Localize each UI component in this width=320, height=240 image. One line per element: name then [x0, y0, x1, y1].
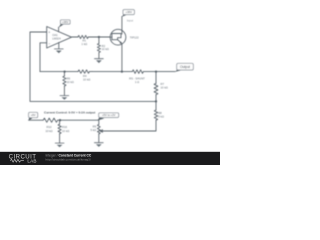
svg-text:R9: R9	[93, 125, 97, 129]
svg-text:http://circuitlab.com/circuit/: http://circuitlab.com/circuit/kmaq3/	[46, 157, 91, 161]
svg-text:10 kΩ: 10 kΩ	[102, 47, 109, 51]
svg-text:R10: R10	[46, 125, 52, 129]
svg-text:1 Ω: 1 Ω	[135, 80, 139, 84]
svg-text:1 kΩ: 1 kΩ	[81, 42, 87, 46]
svg-text:10 kΩ: 10 kΩ	[83, 77, 90, 81]
svg-text:+5V to +2V: +5V to +2V	[102, 113, 116, 117]
svg-text:10 kΩ: 10 kΩ	[62, 129, 69, 133]
svg-text:−: −	[48, 42, 50, 46]
svg-text:10 kΩ: 10 kΩ	[45, 129, 52, 133]
svg-text:Input: Input	[127, 18, 133, 22]
svg-text:+36V: +36V	[62, 20, 69, 24]
svg-text:R1: R1	[83, 39, 87, 43]
svg-text:RS - SHUNT: RS - SHUNT	[129, 77, 145, 81]
svg-text:+5V: +5V	[31, 113, 36, 117]
svg-text:+36V: +36V	[126, 10, 133, 14]
svg-text:LM324: LM324	[52, 37, 61, 41]
svg-text:R7: R7	[161, 82, 165, 86]
svg-text:5 kΩ: 5 kΩ	[90, 128, 96, 132]
svg-text:Output: Output	[180, 65, 190, 69]
svg-text:10 kΩ: 10 kΩ	[161, 85, 168, 89]
svg-text:OA1: OA1	[52, 33, 58, 37]
svg-text:R6: R6	[67, 77, 71, 81]
svg-text:TIP122: TIP122	[130, 35, 139, 39]
svg-text:10 kΩ: 10 kΩ	[67, 80, 74, 84]
svg-text:5 kΩ: 5 kΩ	[158, 114, 164, 118]
svg-text:R8: R8	[158, 111, 162, 115]
svg-text:R16: R16	[62, 125, 68, 129]
svg-text:R2: R2	[102, 44, 106, 48]
svg-text:+: +	[48, 31, 50, 35]
svg-text:LAB: LAB	[27, 159, 36, 164]
svg-text:R4: R4	[83, 74, 87, 78]
svg-text:Current Control: 0-5V = 0-2A: Current Control: 0-5V = 0-2A output	[44, 110, 95, 114]
